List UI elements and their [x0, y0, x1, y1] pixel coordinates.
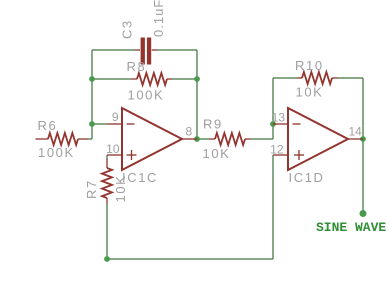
svg-text:R10: R10	[295, 58, 324, 73]
wire feedback up left	[272, 78, 274, 124]
node junction B	[89, 121, 95, 127]
wire pin10 down	[106, 155, 108, 158]
node junction A	[89, 76, 95, 82]
svg-text:8: 8	[186, 125, 193, 139]
op-amp IC1C	[106, 108, 197, 185]
resistor R7	[84, 158, 128, 204]
resistor R8	[127, 59, 173, 103]
wire R10 left	[273, 77, 297, 79]
wire mid left	[92, 78, 131, 80]
label SINE WAVE	[316, 220, 386, 235]
node junction E	[270, 121, 276, 127]
wire R9 to corner	[250, 138, 273, 140]
node junction D	[194, 136, 200, 142]
node junction G	[104, 256, 110, 262]
svg-text:R8: R8	[127, 59, 147, 74]
op-amp IC1D	[270, 108, 363, 185]
svg-text:SINE WAVE: SINE WAVE	[316, 220, 386, 235]
wire mid right	[172, 78, 197, 80]
svg-text:IC1D: IC1D	[289, 170, 325, 185]
svg-text:12: 12	[270, 143, 284, 157]
svg-text:100K: 100K	[128, 88, 165, 103]
wire R7 to bottom	[106, 204, 108, 259]
resistor R9	[203, 117, 251, 162]
wire R6 to node	[88, 138, 92, 140]
svg-text:0.1uF: 0.1uF	[151, 0, 166, 37]
wire left vertical	[91, 50, 93, 139]
svg-text:9: 9	[112, 110, 119, 124]
capacitor C3	[120, 0, 167, 65]
wire top left segment	[92, 49, 135, 51]
svg-text:R9: R9	[203, 117, 223, 132]
svg-text:IC1C: IC1C	[122, 170, 158, 185]
node junction F	[360, 136, 366, 142]
node SINE WAVE endpoint	[360, 210, 367, 217]
wire top right segment	[157, 49, 197, 51]
wire right feedback vertical	[362, 78, 364, 139]
wire output IC1C to R9	[197, 138, 209, 140]
wire right vertical feedback	[196, 50, 198, 139]
svg-text:10: 10	[106, 142, 120, 156]
svg-text:13: 13	[272, 111, 286, 125]
svg-text:10K: 10K	[296, 85, 324, 100]
wire output down to sine	[362, 139, 364, 213]
wire corner up to node	[272, 124, 274, 139]
svg-text:R6: R6	[38, 118, 58, 133]
wire bottom horizontal	[107, 258, 273, 260]
node junction C	[194, 76, 200, 82]
wire R10 right	[338, 77, 363, 79]
svg-text:C3: C3	[120, 19, 135, 39]
resistor R6	[36, 118, 89, 160]
resistor R10	[295, 58, 338, 100]
wire pin9 stub	[92, 123, 107, 125]
wire bottom right vertical	[272, 155, 274, 259]
svg-text:100K: 100K	[38, 145, 75, 160]
svg-text:10K: 10K	[203, 146, 231, 161]
svg-text:14: 14	[349, 125, 363, 139]
svg-text:R7: R7	[84, 179, 99, 199]
